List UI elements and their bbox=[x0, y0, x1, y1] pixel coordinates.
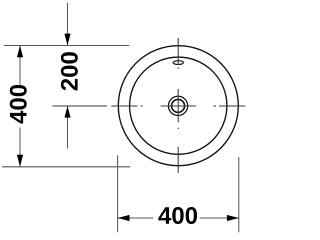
dimension 400 horizontal: label text bbox=[158, 207, 197, 224]
horizontal centerline dot right bbox=[214, 105, 217, 107]
dimension 400 vertical: line upper segment bbox=[19, 46, 21, 85]
dimension 400 vertical: line lower segment bbox=[19, 128, 21, 167]
dimension 400 horizontal: line left segment bbox=[118, 217, 153, 219]
drain outer circle bbox=[168, 96, 187, 115]
dimension 400 vertical: label text bbox=[10, 85, 27, 124]
horizontal centerline dot left bbox=[141, 105, 143, 107]
dimension 200: lower arrow (up, outside) bbox=[64, 106, 70, 118]
dimension 400 horizontal: left extension line bbox=[117, 155, 119, 232]
vertical centerline dot below ellipse bbox=[177, 67, 179, 69]
dimension 200: upper shaft bbox=[67, 3, 69, 46]
vertical centerline dot below drain bbox=[177, 128, 179, 129]
dimension 200: upper arrow (down, outside) bbox=[64, 34, 70, 46]
basin outer rim circle bbox=[118, 46, 238, 166]
drain crosshair vertical centerline segment bbox=[177, 89, 179, 122]
top extension line (tangent at basin top) bbox=[4, 45, 129, 47]
dimension 200: lower shaft bbox=[67, 106, 69, 149]
bottom extension line (tangent at basin bottom) bbox=[2, 166, 130, 168]
overflow hole ellipse bbox=[173, 61, 183, 65]
horizontal centerline dash through left rim bbox=[111, 105, 137, 107]
dimension 200: label text bbox=[61, 52, 78, 90]
horizontal centerline dash through right rim bbox=[219, 105, 245, 107]
dimension 400 vertical: top arrow (up) bbox=[17, 46, 23, 58]
dimension 200: extension line at drain centerline bbox=[53, 105, 107, 107]
vertical centerline dash through bottom rim bbox=[177, 147, 179, 173]
basin inner rim circle bbox=[130, 57, 227, 154]
dimension 400 horizontal: right extension line bbox=[238, 157, 240, 232]
drain crosshair horizontal centerline segment bbox=[161, 105, 197, 107]
dimension 400 horizontal: left arrow bbox=[118, 215, 130, 221]
dimension 400 horizontal: line right segment bbox=[200, 217, 239, 219]
dimension 400 horizontal: right arrow bbox=[227, 215, 239, 221]
drain inner circle bbox=[172, 99, 185, 112]
vertical centerline dash through top rim and overflow bbox=[177, 38, 179, 65]
dimension 400 vertical: bottom arrow (down) bbox=[17, 155, 23, 167]
